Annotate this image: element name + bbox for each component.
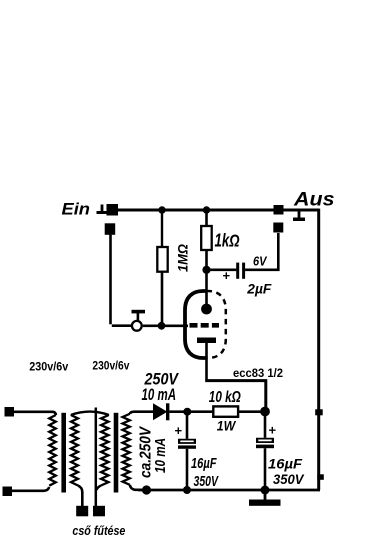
wire diode to resistor <box>169 410 213 413</box>
resistor R1 1M wire top <box>161 213 163 247</box>
terminal heater left <box>76 506 88 517</box>
capacitor C1 2uF plates <box>236 263 245 279</box>
svg-text:1kΩ: 1kΩ <box>215 231 240 251</box>
svg-text:1MΩ: 1MΩ <box>175 244 191 272</box>
resistor R3 10k body <box>213 406 238 416</box>
svg-text:+: + <box>269 423 277 438</box>
tube V1 envelope solid half <box>185 291 206 358</box>
resistor R1 1M body <box>157 247 167 272</box>
terminal Aus signal <box>273 223 283 233</box>
capacitor C3 16uF lead top <box>264 412 267 438</box>
node grid <box>158 322 166 330</box>
wire jack to grid node <box>143 324 158 327</box>
wire right ground bus <box>317 209 320 490</box>
wire mains upper <box>14 412 56 415</box>
svg-text:Aus: Aus <box>293 190 335 211</box>
terminal Ein signal <box>105 223 116 235</box>
tube grid dashes <box>190 323 220 328</box>
svg-text:Ein: Ein <box>62 201 91 219</box>
svg-text:10 mA: 10 mA <box>142 385 177 404</box>
node rectifier output <box>183 408 191 416</box>
tube anode bar <box>197 338 216 344</box>
wire top ground bus <box>118 209 319 212</box>
svg-text:10 kΩ: 10 kΩ <box>209 389 241 406</box>
svg-text:2µF: 2µF <box>246 281 272 296</box>
wire cathode node to capacitor <box>207 268 237 271</box>
svg-text:6V: 6V <box>253 253 268 268</box>
wire grid into tube <box>165 324 188 327</box>
HV secondary winding <box>123 414 130 485</box>
wire capacitor to Aus terminal <box>245 233 278 270</box>
svg-text:10 mA: 10 mA <box>153 438 169 473</box>
earth symbol at Aus <box>293 212 305 222</box>
svg-text:16µF: 16µF <box>268 457 303 472</box>
tube cathode lead <box>205 271 208 305</box>
resistor R2 1k wire top <box>205 212 208 226</box>
node rail at secondary <box>142 485 151 494</box>
capacitor C3 16uF lead bottom <box>264 448 267 490</box>
tube V1 envelope dashed half <box>207 291 226 358</box>
terminal Ein ground <box>107 204 119 216</box>
terminal Aus ground <box>274 205 284 215</box>
node rail at C2 <box>183 486 191 494</box>
diode D1 <box>153 403 169 420</box>
tick on right bus upper <box>315 409 323 415</box>
tube anode lead <box>205 342 208 380</box>
svg-text:cső fűtése: cső fűtése <box>72 524 125 538</box>
resistor R1 1M wire bottom <box>161 272 164 323</box>
connector jack symbol <box>132 310 146 331</box>
tick on right bus lower <box>317 474 324 480</box>
wire anode to supply node <box>205 381 266 412</box>
wire resistor to supply node <box>238 410 266 413</box>
heater winding right <box>101 415 109 486</box>
svg-text:+: + <box>175 423 183 438</box>
capacitor C2 16uF plates <box>178 439 196 449</box>
wire heater lead left <box>78 486 82 507</box>
wire Ein signal to jack <box>111 234 132 326</box>
node cathode <box>202 266 210 274</box>
earth symbol at Ein <box>97 205 108 215</box>
wire secondary bottom to rail <box>130 485 142 490</box>
resistor R2 1k body <box>201 226 212 250</box>
svg-text:1W: 1W <box>217 417 237 433</box>
svg-text:230v/6v: 230v/6v <box>29 359 68 373</box>
heater winding left <box>71 415 78 486</box>
ground symbol bar <box>249 500 281 506</box>
svg-text:230v/6v: 230v/6v <box>92 358 129 372</box>
node top of 1M resistor <box>158 206 165 213</box>
capacitor C2 16uF lead top <box>186 412 189 439</box>
wire secondary top to diode <box>130 412 153 414</box>
svg-text:350V: 350V <box>194 473 220 490</box>
terminal heater right <box>93 506 105 517</box>
transformer core bar right <box>114 413 119 493</box>
tube cathode dot <box>201 304 212 315</box>
terminal mains upper <box>5 407 15 417</box>
node rail at ground <box>261 486 270 495</box>
wire heater center line <box>95 408 98 507</box>
wire heater top arc <box>71 412 109 415</box>
node top of 1k resistor <box>203 206 210 213</box>
wire heater winding right bottom hook <box>97 486 102 491</box>
capacitor C3 16uF plates <box>256 438 274 448</box>
node supply B+ <box>260 407 270 417</box>
svg-text:+: + <box>223 268 231 283</box>
wire mains lower <box>12 487 49 491</box>
transformer primary winding <box>49 415 56 486</box>
svg-text:ca.250V: ca.250V <box>137 426 154 478</box>
wire bottom rail <box>138 489 320 492</box>
svg-text:350V: 350V <box>273 472 304 487</box>
capacitor C2 16uF lead bottom <box>186 449 189 490</box>
svg-text:ecc83 1/2: ecc83 1/2 <box>233 366 283 380</box>
resistor R2 1k wire bottom <box>205 250 208 267</box>
transformer core bar left <box>61 413 66 493</box>
svg-text:16µF: 16µF <box>191 456 217 472</box>
ground symbol stem <box>264 490 267 500</box>
terminal mains lower <box>3 487 13 497</box>
